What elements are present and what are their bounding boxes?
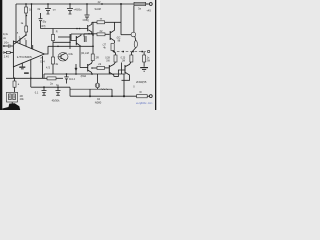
- svg-text:+45: +45: [146, 8, 151, 12]
- capacitor C5: [66, 74, 68, 77]
- pin stub 2: [25, 40, 27, 46]
- capacitor input coupling: [5, 45, 9, 47]
- ground blob: [2, 103, 20, 110]
- lamp M1: [95, 83, 100, 88]
- right page margin: [156, 0, 160, 110]
- resistor R7: [111, 44, 114, 51]
- wire bottom bus: [70, 95, 137, 97]
- wire emitter junction: [92, 67, 97, 69]
- ground output: [140, 67, 148, 68]
- svg-text:1(: 1(: [24, 39, 26, 41]
- svg-text:1/0n: 1/0n: [4, 40, 10, 44]
- svg-text:C07j: C07j: [40, 24, 46, 28]
- wire op-amp output: [44, 46, 48, 54]
- svg-text:0n1.4: 0n1.4: [69, 78, 76, 81]
- resistor R3 top mid: [92, 21, 97, 23]
- svg-text:C0k: C0k: [68, 53, 73, 56]
- terminal input bottom: [3, 52, 5, 54]
- page background: [0, 0, 160, 110]
- resistor R5: [52, 29, 54, 35]
- pin stub 1: [19, 38, 21, 44]
- resistor R10: [143, 55, 146, 62]
- resistor R6: [97, 33, 105, 36]
- svg-text:1(4s: 1(4s: [3, 33, 9, 36]
- node bus junctions: [25, 3, 122, 5]
- capacitor C2: [69, 4, 71, 8]
- svg-text:eqblk.im: eqblk.im: [136, 101, 154, 105]
- wire C3 to node: [41, 28, 88, 30]
- scan edge bar left: [0, 0, 2, 110]
- svg-text:SA48: SA48: [95, 7, 102, 11]
- resistor R13: [97, 66, 105, 69]
- resistor R4 bus right: [134, 2, 146, 5]
- svg-text:04: 04: [97, 97, 100, 101]
- transistor Q2: [71, 33, 93, 35]
- svg-text:+45/5o: +45/5o: [74, 8, 83, 12]
- wire right drop: [120, 4, 122, 35]
- resistor R9 emitter: [130, 55, 133, 62]
- transistor Q3: [87, 25, 89, 31]
- wire output sense drop: [42, 56, 44, 78]
- wire mid vert: [92, 22, 94, 54]
- transistor Q8 2N3055: [108, 65, 110, 74]
- svg-text:2R: 2R: [96, 56, 99, 59]
- capacitor C7: [57, 87, 59, 90]
- terminal output: [149, 95, 152, 98]
- wire dashed thermal: [113, 51, 147, 53]
- capacitor C4: [83, 36, 85, 42]
- capacitor C8: [86, 4, 88, 15]
- svg-text:R: R: [56, 30, 58, 34]
- rectifier B1: [7, 92, 18, 102]
- resistor R15: [14, 78, 16, 81]
- pin stub 3: [32, 45, 34, 49]
- resistor R2: [25, 26, 28, 32]
- wire fb lower rail: [6, 77, 47, 79]
- capacitor C6: [43, 87, 45, 90]
- svg-text:C04: C04: [40, 60, 45, 63]
- wire supply mid rail: [31, 86, 70, 88]
- svg-text:LTC606: LTC606: [17, 55, 33, 59]
- wire output node: [121, 63, 123, 75]
- capacitor C1: [47, 4, 49, 8]
- wire mirror rail: [84, 33, 97, 35]
- page border right: [155, 0, 156, 110]
- wire mid rail c: [58, 36, 70, 38]
- svg-text:(8Ω4: (8Ω4: [81, 75, 87, 78]
- transistor Q9 2N3055: [124, 65, 126, 74]
- ground op-amp: [21, 63, 23, 67]
- transistor Q6: [133, 6, 135, 33]
- label smudge under ground: [24, 72, 29, 74]
- transistor Q7: [87, 64, 89, 72]
- terminal +V: [149, 3, 152, 6]
- text labels: [3, 0, 154, 105]
- terminal input top: [3, 45, 5, 47]
- op-amp U1: [13, 41, 44, 67]
- svg-text:4,7j: 4,7j: [46, 67, 50, 70]
- fuse F1: [134, 41, 137, 48]
- resistor R11: [91, 54, 94, 61]
- svg-text:2N30(55: 2N30(55: [136, 80, 147, 84]
- wire speaker drop: [97, 74, 99, 83]
- svg-text:0,1: 0,1: [35, 91, 39, 94]
- resistor input lower: [5, 52, 7, 54]
- svg-text:45/50k: 45/50k: [52, 98, 60, 102]
- diode D1: [75, 64, 77, 74]
- resistor R8 emitter: [113, 51, 116, 56]
- wire mid drop: [69, 34, 71, 49]
- transistor Q4: [58, 53, 68, 61]
- wire mid rail b: [53, 41, 70, 43]
- wire base drop: [79, 46, 81, 67]
- wire left supply drop: [15, 4, 17, 42]
- wire feedback drop: [30, 60, 32, 87]
- wire load line: [70, 88, 112, 90]
- transistor Q5: [109, 31, 111, 40]
- wire pin riser: [31, 4, 33, 49]
- wire mid out rail: [44, 73, 124, 75]
- resistor R1: [25, 4, 27, 7]
- resistor R12: [47, 77, 56, 80]
- wire inverting return: [13, 67, 15, 79]
- svg-text:C08(j: C08(j: [83, 18, 90, 22]
- wire bias divider to input: [14, 35, 26, 44]
- capacitor C3: [40, 13, 42, 18]
- svg-text:2,4G: 2,4G: [4, 55, 9, 58]
- wire top supply bus: [16, 3, 148, 5]
- svg-text:N080: N080: [95, 100, 102, 104]
- resistor R5b: [52, 42, 54, 57]
- wire to ground blob: [11, 102, 13, 104]
- wire mid rail a: [48, 45, 93, 47]
- svg-text:(04,L4Z: (04,L4Z: [81, 53, 90, 55]
- resistor R14: [137, 95, 148, 98]
